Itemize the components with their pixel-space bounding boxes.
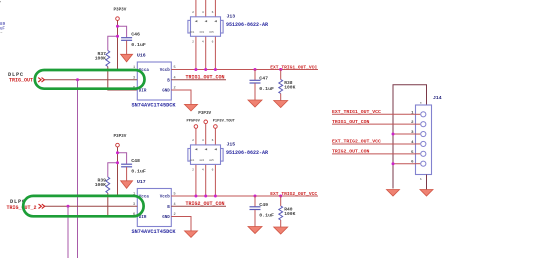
svg-text:2: 2: [192, 41, 194, 44]
svg-text:TRIG_OUT: TRIG_OUT: [9, 78, 33, 84]
svg-text:C49: C49: [259, 202, 268, 208]
svg-text:3: 3: [202, 159, 204, 162]
svg-text:3: 3: [202, 31, 204, 34]
svg-text:4: 4: [202, 169, 204, 172]
svg-text:0.1uF: 0.1uF: [131, 169, 146, 175]
svg-text:100K: 100K: [95, 55, 106, 61]
svg-text:PP5P0V: PP5P0V: [187, 120, 201, 124]
svg-text:EXT_TRIG2_OUT_VCC: EXT_TRIG2_OUT_VCC: [270, 191, 317, 197]
svg-text:J13: J13: [227, 14, 236, 20]
svg-text:P3P3V: P3P3V: [113, 134, 126, 139]
svg-text:EXT_TRIG1_OUT_VCC: EXT_TRIG1_OUT_VCC: [270, 65, 317, 71]
svg-text:U17: U17: [137, 179, 146, 185]
svg-text:DIR: DIR: [139, 90, 147, 94]
svg-text:5: 5: [212, 159, 214, 162]
svg-text:T: T: [0, 1, 1, 7]
svg-text:2: 2: [192, 169, 194, 172]
svg-text:951206-8622-AR: 951206-8622-AR: [226, 22, 268, 28]
svg-text:1uF: 1uF: [0, 26, 5, 31]
svg-text:2: 2: [192, 139, 194, 142]
svg-text:SN74AVC1T45DCK: SN74AVC1T45DCK: [131, 229, 176, 235]
svg-text:GND: GND: [162, 216, 170, 220]
svg-text:4: 4: [202, 41, 204, 44]
svg-text:TRIG2_OUT_CON: TRIG2_OUT_CON: [186, 201, 225, 207]
svg-text:0.1uF: 0.1uF: [259, 86, 274, 92]
svg-text:0.1uF: 0.1uF: [259, 213, 274, 219]
svg-text:4: 4: [202, 139, 204, 142]
svg-text:1: 1: [192, 31, 194, 34]
svg-text:TRIG1_OUT_CON: TRIG1_OUT_CON: [186, 74, 225, 80]
svg-text:P3P3V: P3P3V: [198, 111, 211, 116]
svg-text:SN74AVC1T45DCK: SN74AVC1T45DCK: [131, 102, 176, 108]
svg-text:951206-8622-AR: 951206-8622-AR: [226, 150, 268, 156]
svg-text:100K: 100K: [284, 211, 295, 217]
svg-text:100K: 100K: [95, 182, 106, 188]
svg-text:U16: U16: [137, 53, 146, 59]
svg-text:J14: J14: [433, 95, 442, 101]
svg-text:4: 4: [202, 11, 204, 14]
svg-text:6: 6: [212, 11, 214, 14]
svg-text:DIR: DIR: [139, 216, 147, 220]
svg-text:C47: C47: [259, 76, 268, 82]
svg-text:TRIG1_OUT_CON: TRIG1_OUT_CON: [332, 119, 370, 125]
svg-text:1: 1: [192, 159, 194, 162]
svg-text:5: 5: [212, 31, 214, 34]
svg-text:100K: 100K: [284, 84, 295, 90]
svg-text:C48: C48: [131, 158, 140, 164]
svg-text:P3P3V: P3P3V: [113, 7, 126, 12]
svg-text:J15: J15: [227, 142, 236, 148]
svg-text:Vccb: Vccb: [160, 195, 171, 200]
svg-text:Vccb: Vccb: [160, 68, 171, 73]
svg-text:EXT_TRIG1_OUT_VCC: EXT_TRIG1_OUT_VCC: [332, 109, 381, 115]
svg-text:6: 6: [212, 169, 214, 172]
svg-text:C46: C46: [131, 32, 140, 38]
svg-text:0.1uF: 0.1uF: [131, 42, 146, 48]
svg-text:P1P8V_TOUT: P1P8V_TOUT: [213, 120, 236, 124]
svg-text:~: ~: [0, 32, 2, 36]
svg-text:2: 2: [192, 11, 194, 14]
svg-text:TRIG2_OUT_CON: TRIG2_OUT_CON: [332, 149, 370, 155]
svg-text:EXT_TRIG2_OUT_VCC: EXT_TRIG2_OUT_VCC: [332, 139, 381, 145]
svg-text:GND: GND: [162, 90, 170, 94]
svg-text:6: 6: [212, 41, 214, 44]
svg-text:6: 6: [212, 139, 214, 142]
svg-text:TRIG_OUT_2: TRIG_OUT_2: [6, 205, 36, 211]
